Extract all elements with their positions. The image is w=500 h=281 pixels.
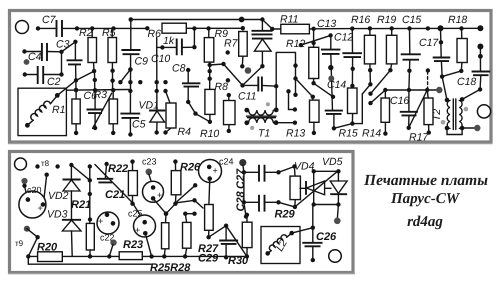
svg-text:R8: R8 bbox=[215, 81, 229, 93]
svg-text:C2: C2 bbox=[47, 76, 61, 88]
dark pad near c24 bbox=[239, 159, 246, 166]
svg-text:R3: R3 bbox=[94, 89, 108, 101]
jumper wires near R8 bbox=[188, 102, 210, 122]
resistor R25 bbox=[164, 211, 169, 216]
wire rail y28.3 bbox=[38, 28, 243, 30]
svg-text:R23: R23 bbox=[123, 239, 143, 251]
svg-text:C11: C11 bbox=[238, 91, 256, 103]
svg-text:C14: C14 bbox=[327, 79, 346, 91]
svg-text:T1: T1 bbox=[258, 128, 270, 140]
jumper over C16 bbox=[409, 90, 428, 128]
svg-text:+: + bbox=[98, 216, 103, 226]
net y90 bbox=[385, 89, 438, 91]
capacitor c20 (electrolytic/transistor) bbox=[19, 175, 47, 218]
jumper across C21 bbox=[95, 165, 145, 223]
svg-text:Печатные платы: Печатные платы bbox=[363, 172, 488, 189]
capacitor (unlabeled, below C3) bbox=[74, 42, 77, 90]
mounting hole top-right bbox=[477, 105, 490, 118]
diode + cap stack (top middle) bbox=[261, 20, 263, 67]
junction pads on rail bbox=[36, 26, 211, 31]
svg-text:C5: C5 bbox=[132, 119, 146, 131]
net into T1 secondary bbox=[286, 89, 290, 93]
mounting hole top-left bbox=[16, 21, 29, 34]
svg-text:R7: R7 bbox=[224, 38, 239, 50]
wire row y90.2 bbox=[67, 89, 129, 92]
svg-text:+: + bbox=[135, 225, 140, 235]
svg-text:C7: C7 bbox=[42, 14, 57, 26]
svg-text:VD4: VD4 bbox=[294, 161, 315, 173]
svg-text:C9: C9 bbox=[135, 56, 149, 68]
transformer T2 bbox=[431, 77, 480, 135]
drop to C9 bbox=[130, 20, 132, 51]
svg-text:R16: R16 bbox=[351, 14, 370, 26]
pads left of c24 bbox=[193, 183, 197, 187]
jumper R9-C11 bbox=[210, 64, 243, 85]
svg-text:C4: C4 bbox=[28, 51, 42, 63]
svg-text:C18: C18 bbox=[457, 76, 476, 88]
svg-text:C15: C15 bbox=[402, 14, 421, 26]
svg-text:R10: R10 bbox=[200, 128, 219, 140]
svg-text:VD5: VD5 bbox=[322, 156, 343, 168]
svg-text:C8: C8 bbox=[172, 63, 186, 75]
svg-text:R25R28: R25R28 bbox=[150, 262, 191, 274]
jumper pads left of R14 bbox=[368, 82, 372, 86]
capacitor c25 bbox=[128, 209, 156, 257]
mounting hole bottom-right bbox=[329, 250, 342, 263]
svg-text:c25: c25 bbox=[128, 209, 143, 219]
capacitor c23 bbox=[142, 157, 164, 203]
svg-text:C26: C26 bbox=[316, 231, 337, 243]
svg-text:R13: R13 bbox=[286, 128, 305, 140]
svg-text:R14: R14 bbox=[362, 128, 381, 140]
gray pad bbox=[24, 59, 30, 65]
vertical net right of C11 bbox=[276, 52, 295, 109]
svg-text:R18: R18 bbox=[448, 14, 467, 26]
svg-text:R6: R6 bbox=[148, 28, 162, 40]
board 2 outline bbox=[10, 152, 354, 273]
svg-text:C29: C29 bbox=[198, 253, 219, 265]
pads mid-left bbox=[155, 80, 159, 84]
svg-text:VD2: VD2 bbox=[48, 190, 69, 202]
resistor (left of C6) bbox=[75, 90, 77, 133]
svg-text:R4: R4 bbox=[178, 126, 192, 138]
vertical feed to VD1 bbox=[156, 38, 158, 111]
svg-text:C12: C12 bbox=[334, 32, 353, 44]
svg-text:R21: R21 bbox=[71, 199, 91, 211]
svg-text:+: + bbox=[157, 190, 162, 200]
svg-text:R15: R15 bbox=[339, 128, 358, 140]
wire diagonal to R2 bottom bbox=[76, 71, 95, 81]
svg-text:c24: c24 bbox=[219, 157, 234, 167]
dark pad below VD5 bbox=[334, 218, 341, 225]
upper bus y19.5 bbox=[129, 17, 134, 22]
svg-text:+: + bbox=[213, 166, 218, 176]
svg-text:VD3: VD3 bbox=[47, 209, 68, 221]
wires top-left bbox=[71, 165, 89, 223]
svg-text:c20: c20 bbox=[27, 185, 42, 195]
mounting hole bbox=[15, 158, 27, 170]
svg-text:Парус-CW: Парус-CW bbox=[390, 191, 461, 207]
coil L1 box bbox=[18, 88, 66, 135]
wire from coil to C3 node bbox=[57, 80, 76, 95]
svg-text:C16: C16 bbox=[390, 95, 409, 107]
svg-text:R1: R1 bbox=[52, 104, 65, 116]
capacitor C28 bbox=[244, 172, 279, 216]
svg-text:+: + bbox=[38, 203, 43, 213]
dashed net bbox=[427, 72, 429, 89]
jumpers near C29 bbox=[209, 226, 247, 257]
svg-text:R17: R17 bbox=[409, 132, 429, 144]
coil L2 bbox=[265, 231, 294, 256]
svg-text:rd4ag: rd4ag bbox=[407, 214, 443, 230]
svg-text:R29: R29 bbox=[275, 209, 296, 221]
net from diode to C11 bbox=[243, 66, 263, 85]
svg-text:т8: т8 bbox=[41, 159, 50, 168]
svg-text:1k: 1k bbox=[163, 35, 175, 47]
jumper across VD4 bbox=[295, 171, 338, 207]
resistor R28 bbox=[183, 212, 187, 216]
svg-text:т9: т9 bbox=[15, 239, 24, 248]
svg-text:C10: C10 bbox=[151, 53, 170, 65]
svg-text:C21: C21 bbox=[105, 189, 125, 201]
svg-text:R22: R22 bbox=[108, 163, 128, 175]
board 1 outline bbox=[10, 11, 492, 143]
gray pad bbox=[245, 67, 252, 74]
svg-text:R19: R19 bbox=[377, 14, 396, 26]
capacitor c24 bbox=[199, 157, 234, 183]
capacitor C27 bbox=[243, 165, 279, 172]
svg-text:C17: C17 bbox=[419, 37, 439, 49]
svg-text:c23: c23 bbox=[142, 157, 157, 167]
net between diodes bbox=[312, 169, 316, 173]
svg-text:C3: C3 bbox=[56, 39, 70, 51]
pad below R7 label bbox=[226, 50, 230, 54]
capacitor c22 bbox=[97, 212, 119, 256]
coil L2 box bbox=[261, 227, 300, 264]
resistor (right of C6) bbox=[112, 90, 114, 133]
